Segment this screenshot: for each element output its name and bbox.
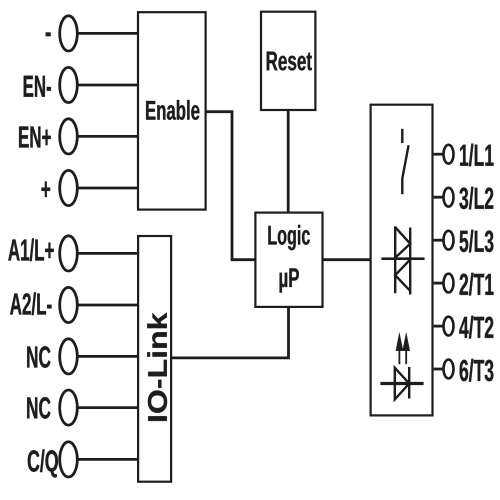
terminal circle A2/L- xyxy=(60,287,78,322)
triac V1 left bar xyxy=(394,226,396,293)
label block IO-Link (rotated) xyxy=(147,313,167,421)
label terminal 6/T3 xyxy=(460,359,494,382)
label terminal 2/T1 xyxy=(460,273,494,296)
terminal circle NC lower xyxy=(60,390,78,425)
terminal circle EN- xyxy=(60,67,78,102)
wire terminal NC upper to IO-Link xyxy=(77,355,139,358)
LED D1 arrow head right xyxy=(403,333,410,351)
terminal circle 1/L1 xyxy=(444,145,454,164)
label block Enable xyxy=(146,100,199,120)
terminal circle C/Q xyxy=(60,442,78,477)
label terminal EN+ xyxy=(19,127,51,148)
wire terminal NC lower to IO-Link xyxy=(77,406,139,409)
wire stub terminal 3/L2 xyxy=(434,196,443,199)
wire stub terminal 6/T3 xyxy=(434,368,443,371)
switch contact S1 blade xyxy=(402,145,408,178)
wire terminal C/Q to IO-Link xyxy=(77,458,139,461)
terminal circle 4/T2 xyxy=(444,317,454,336)
wire stub terminal 2/T1 xyxy=(434,282,443,285)
wire Enable to Logic xyxy=(206,112,257,260)
block IO-Link xyxy=(138,236,171,482)
label terminal NC upper xyxy=(27,346,50,368)
terminal circle EN+ xyxy=(60,119,78,154)
terminal circle A1/L+ xyxy=(60,236,78,271)
label terminal EN- xyxy=(24,76,51,97)
label terminal 3/L2 xyxy=(459,187,493,210)
switch contact S1 top lead xyxy=(401,129,403,143)
triac V1 lower triangle xyxy=(395,260,410,291)
wire terminal + to Enable xyxy=(77,187,139,190)
wire terminal A1/L+ to IO-Link xyxy=(77,252,139,255)
label terminal + xyxy=(42,182,51,198)
block output stage xyxy=(371,105,433,416)
terminal circle 6/T3 xyxy=(444,360,454,379)
switch contact S1 bottom lead xyxy=(401,178,403,194)
label block Logic line 1 xyxy=(268,225,309,250)
LED D1 arrow head left xyxy=(396,333,403,351)
LED D1 through line xyxy=(380,382,423,385)
wire terminal A2/L- to IO-Link xyxy=(77,304,139,307)
wire stub terminal 4/T2 xyxy=(434,325,443,328)
triac V1 right bar xyxy=(409,228,411,295)
label block Reset xyxy=(267,52,312,71)
label block Logic line 2 uP xyxy=(280,268,299,292)
label terminal 5/L3 xyxy=(460,230,494,253)
label terminal A2/L- xyxy=(10,292,51,315)
terminal circle NC upper xyxy=(60,339,78,374)
wire Logic to IO-Link xyxy=(172,307,289,358)
wire terminal - to Enable xyxy=(77,32,139,35)
label terminal A1/L+ xyxy=(8,238,53,261)
LED D1 anode triangle xyxy=(395,368,409,400)
triac V1 gate line xyxy=(381,257,424,260)
terminal circle 2/T1 xyxy=(444,274,454,293)
terminal circle + xyxy=(60,170,78,205)
label terminal C/Q xyxy=(28,449,58,477)
wire stub terminal 1/L1 xyxy=(434,153,443,156)
terminal circle 3/L2 xyxy=(444,188,454,207)
block Logic uP U1 xyxy=(255,213,322,307)
terminal circle 5/L3 xyxy=(444,231,454,250)
wire terminal EN+ to Enable xyxy=(77,135,139,138)
wire terminal EN- to Enable xyxy=(77,84,139,87)
LED D1 arrow shaft right xyxy=(405,347,407,364)
terminal circle "-" xyxy=(60,16,78,51)
LED D1 arrow shaft left xyxy=(398,347,400,364)
label terminal 1/L1 xyxy=(460,144,493,167)
label terminal 4/T2 xyxy=(459,316,493,339)
block Enable xyxy=(138,12,206,209)
label terminal NC lower xyxy=(27,397,50,419)
LED D1 cathode bar xyxy=(408,367,410,399)
wire Reset to Logic xyxy=(287,110,290,213)
triac V1 upper triangle xyxy=(395,227,410,258)
wire stub terminal 5/L3 xyxy=(434,239,443,242)
block Reset xyxy=(261,12,315,110)
wire Logic to output stage xyxy=(323,258,371,261)
label terminal - xyxy=(46,33,51,37)
